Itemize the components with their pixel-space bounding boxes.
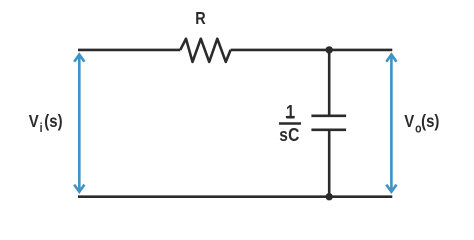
svg-text:Vi(s): Vi(s) [29,112,63,136]
Vi measurement arrow (double-headed, blue) [74,55,84,192]
label R [195,9,206,29]
svg-text:R: R [195,9,206,29]
wire: capacitor bottom lead [328,130,331,197]
resistor R [180,39,230,62]
wire: capacitor top lead [328,50,331,116]
svg-text:sC: sC [279,125,300,145]
svg-text:1: 1 [286,101,295,123]
label 1/sC: fraction bar [279,122,301,124]
label Vo(s) [404,112,439,136]
svg-text:Vo(s): Vo(s) [404,112,439,136]
wire: top segment from resistor to output node [231,49,393,52]
junction node: bottom (capacitor/return) [326,193,333,200]
label 1/sC: numerator 1 [286,101,295,123]
capacitor C bottom plate [311,129,346,132]
Vo measurement arrow (double-headed, blue) [386,55,396,192]
capacitor C top plate [311,115,346,118]
label 1/sC: numerator foot serif [286,116,295,118]
label 1/sC: denominator sC [279,125,300,145]
wire: bottom return [78,195,392,198]
junction node: top (resistor/capacitor/output) [326,46,333,53]
label Vi(s) [29,112,63,136]
wire: top segment from input node to resistor [78,49,180,52]
